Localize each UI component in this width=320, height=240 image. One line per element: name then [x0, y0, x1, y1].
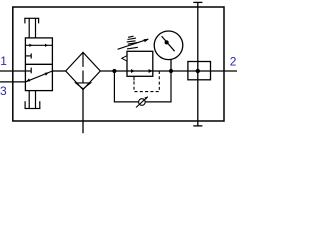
regulator R1 spring — [127, 36, 138, 49]
enclosure — [13, 7, 224, 121]
regulator R1 relief triangle — [122, 56, 127, 61]
blocked connection cap top — [193, 1, 202, 3]
node junction branch — [196, 69, 200, 73]
wire valve to filter — [52, 70, 65, 72]
regulator R1 body — [127, 51, 153, 76]
valve V1 body — [25, 38, 52, 91]
filter F1 water trap triangle — [76, 83, 91, 89]
valve V1 bottom position blocked port — [25, 68, 31, 74]
regulator R1 relief vent loop — [114, 71, 171, 102]
manifold block — [188, 62, 211, 80]
gauge G1 — [154, 31, 183, 71]
blocked connection cap bottom — [193, 125, 202, 127]
valve V1 bottom position flow path — [25, 71, 52, 82]
vent circle — [139, 99, 146, 106]
wire port 3 line — [0, 81, 25, 83]
svg-text:1: 1 — [0, 54, 7, 68]
svg-text:2: 2 — [230, 54, 237, 68]
regulator R1 adjustment arrow — [118, 39, 150, 50]
vent arrow — [136, 97, 148, 108]
valve V1 push button actuator — [24, 18, 39, 38]
node junction left — [112, 69, 116, 73]
node junction gauge — [169, 69, 173, 73]
svg-text:3: 3 — [0, 84, 7, 98]
wire port 1 line — [0, 70, 25, 72]
filter F1 drain line — [82, 90, 84, 134]
regulator R1 pilot stub — [133, 76, 135, 80]
filter F1 diamond — [66, 52, 101, 89]
valve V1 top position flow path — [25, 44, 52, 47]
valve V1 top position blocked port — [25, 53, 31, 58]
regulator R1 flow arrowheads — [131, 69, 135, 73]
filter F1 element dashed line — [82, 52, 84, 83]
wire filter to regulator — [100, 70, 237, 72]
branch vertical line — [197, 2, 199, 126]
valve V1 bottom detent actuator — [25, 91, 41, 109]
regulator R1 pilot dashed line — [134, 71, 159, 92]
